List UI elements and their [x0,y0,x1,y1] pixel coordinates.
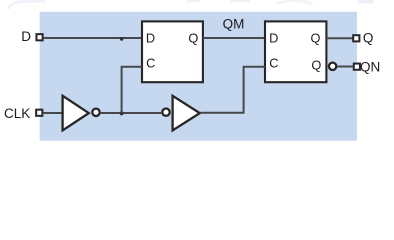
svg-text:QN: QN [360,59,380,74]
svg-text:CLK: CLK [4,106,30,121]
latch U1 (master) box [142,21,203,82]
wire junction up to U1 C [122,67,142,113]
svg-text:Q: Q [363,31,374,46]
svg-text:Q: Q [311,30,321,45]
junction on clock line [120,111,124,115]
terminal D [36,34,42,40]
terminal CLK [36,110,42,116]
wire D input to U1 [44,37,141,39]
junction dot on D wire [120,37,124,41]
svg-text:Q: Q [188,30,198,45]
watermark fragment top-left arc [9,1,45,9]
svg-text:D: D [146,30,155,45]
svg-text:C: C [146,56,155,71]
svg-text:C: C [269,56,278,71]
wire I1 to I2 [101,112,161,114]
latch U2 (slave) box [265,21,326,82]
inverter I2 triangle [173,96,200,131]
watermark fragment bar 2 [231,0,251,2]
svg-text:D: D [21,29,31,44]
terminal Q [353,35,359,41]
svg-text:D: D [269,30,278,45]
watermark fragment O-top arc [276,1,313,5]
watermark fragment bar 3 [358,0,374,3]
wire QM: U1 Q to U2 D [203,37,265,39]
inverter I1 output bubble [92,109,99,116]
terminal QN [354,64,360,70]
watermark fragment bar 1 [187,0,201,2]
wire I2 to U2 C [201,67,265,113]
svg-text:QM: QM [223,17,245,32]
inverter I2 input bubble [162,109,169,116]
wire CLK to inverter I1 [43,112,62,114]
svg-text:Q: Q [311,58,321,73]
panel background [40,12,357,141]
wire bubble to terminal QN [337,66,352,68]
inverter I1 triangle [63,96,89,131]
wire U2 Q to terminal Q [326,37,352,39]
inversion bubble on U2 QN [329,63,336,70]
